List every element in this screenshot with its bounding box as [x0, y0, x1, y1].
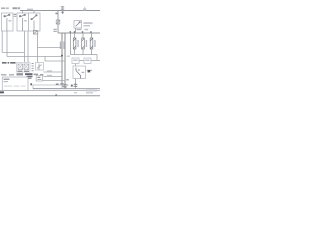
wire label text along x62: [60, 42, 61, 50]
connector pin column x32.5: [32, 63, 34, 71]
label text above A1: [1, 7, 9, 9]
wire: stub bus to A2: [21, 11, 23, 14]
wire: A1 pin2 drop x7: [6, 31, 8, 57]
title block text bar 2: [86, 92, 93, 94]
wire: horizontal y80.5: [43, 80, 66, 82]
junction tick at x62 y56.5: [61, 55, 63, 57]
wire: horizontal y47.5: [38, 47, 63, 49]
wire: S1 down to ground: [75, 79, 77, 89]
text row above legend: [1, 73, 38, 79]
wire: A1 pin1 drop x2.2: [1, 31, 3, 53]
wire: top supply bus: [20, 10, 100, 12]
fuse F1 on bus: [61, 6, 64, 14]
small dash left of title block: [74, 92, 77, 93]
wire: main drop at x58: [57, 11, 59, 34]
wire: X10 down to S1: [75, 64, 77, 67]
wire: X10 to X11: [79, 60, 84, 62]
connector box X11: [84, 58, 91, 64]
wire: vertical bus x65: [64, 33, 66, 89]
wire: horizontal y76.5: [44, 76, 63, 78]
switch S1 box: [73, 66, 86, 79]
lamp cluster box: [17, 63, 31, 73]
wire: horizontal y56.5: [7, 56, 62, 58]
wire: A2 drop x28: [27, 31, 29, 63]
connector X3 below A3: [33, 31, 37, 34]
lamp L2: [24, 64, 29, 70]
label right of S1: [87, 70, 92, 73]
control unit A3: [29, 13, 41, 31]
label text above A2: [13, 7, 21, 9]
relay K1 box top-right: [74, 21, 82, 29]
ground rail line y88.7: [33, 88, 100, 90]
wire: vertical bus x62: [61, 33, 63, 89]
connector tick on x58 wire: [55, 13, 57, 15]
wire: corner x45 to y61: [45, 57, 65, 62]
label text right of K1: [84, 22, 93, 26]
wire: vertical x97: [96, 55, 98, 61]
fuse F3 with leads: [82, 33, 85, 55]
ground terminal marks under S1: [71, 84, 77, 87]
wire: horizontal y52.5: [2, 52, 24, 54]
page number dark smudge: [0, 91, 4, 93]
label text above y33 wire: [77, 29, 89, 30]
label right of F4: [94, 40, 95, 47]
wire: stub K1 to y33: [75, 28, 77, 33]
frame line y90.6: [0, 90, 100, 92]
wire: X11 to right edge: [91, 60, 100, 62]
fuse F4 with leads: [90, 33, 93, 55]
faint label above y72 wire: [47, 70, 52, 71]
wire: horizontal distribution y33: [58, 32, 100, 34]
relay K2 box: [36, 63, 44, 71]
faint label right of junction: [67, 56, 71, 57]
label right of F3: [86, 40, 87, 47]
dark tick left of cable duct: [30, 83, 32, 85]
harness dark dashed bar: [2, 62, 16, 63]
label text above A3: [27, 9, 33, 10]
fuse F2 with leads: [73, 33, 76, 55]
control unit A1: [2, 13, 14, 31]
label text under lamps: [18, 71, 30, 72]
faint text row inside legend box: [4, 86, 26, 87]
wire: vertical x70.5: [70, 33, 72, 55]
wire: X3 drop x37.5: [37, 34, 39, 63]
frame line y95.7: [0, 95, 100, 97]
arrow marks between A1 and A2: [14, 14, 17, 17]
faint label above y76.5 wire: [47, 75, 52, 76]
label right of F2: [77, 40, 78, 47]
connector marks x33-43 y75: [40, 74, 43, 75]
label marks left of x58 wire: [53, 29, 56, 32]
connector box X4: [36, 75, 43, 81]
wire: A2 drop x24.5: [24, 31, 26, 63]
faint symbol above bus right: [83, 7, 86, 11]
wire: horizontal y54.5: [71, 54, 98, 56]
lamp L1: [18, 64, 23, 70]
connector box X10: [72, 58, 79, 64]
ground terminal marks at x62 x65: [56, 79, 69, 87]
legend box bottom-left: [2, 77, 28, 91]
connector X5 on x58 wire: [56, 20, 60, 24]
wire: horizontal y72: [44, 71, 63, 73]
title block text bar 1: [86, 90, 97, 92]
control unit A2: [17, 13, 29, 31]
tick on bottom frame: [55, 94, 57, 96]
wire label text along x65: [63, 42, 64, 50]
cable duct box above frame: [33, 85, 62, 89]
wire: stub bus to A3: [33, 11, 35, 14]
junction ticks on y33 wire: [70, 31, 92, 33]
